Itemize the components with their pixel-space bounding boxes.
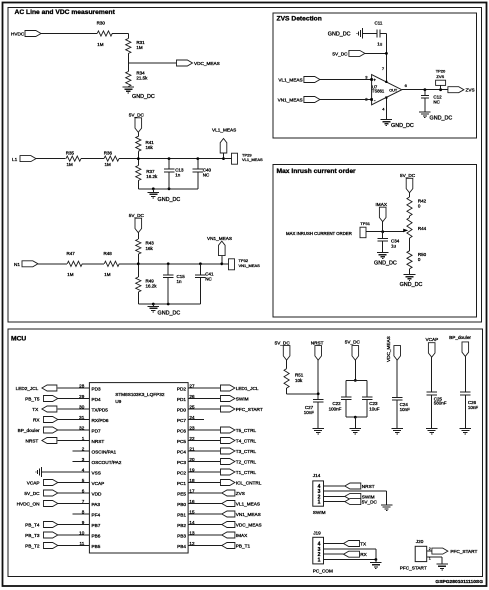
- svg-text:100nF: 100nF: [329, 406, 342, 411]
- svg-text:LED2_JCL: LED2_JCL: [16, 386, 39, 391]
- svg-text:2: 2: [82, 446, 85, 451]
- svg-text:PB3: PB3: [177, 533, 186, 538]
- svg-text:PFC_START: PFC_START: [450, 549, 477, 554]
- svg-text:PC5: PC5: [177, 439, 187, 444]
- svg-text:PD3: PD3: [92, 386, 102, 391]
- svg-text:GSPG2801011110SG: GSPG2801011110SG: [435, 579, 483, 585]
- svg-text:1M: 1M: [104, 272, 111, 277]
- svg-text:580nF: 580nF: [434, 401, 447, 406]
- svg-text:RX: RX: [33, 417, 40, 422]
- svg-text:1M: 1M: [97, 42, 104, 47]
- svg-text:5V_DC: 5V_DC: [332, 52, 348, 57]
- svg-text:5: 5: [82, 478, 85, 483]
- svg-text:10uF: 10uF: [369, 406, 380, 411]
- svg-text:R30: R30: [97, 21, 106, 26]
- svg-text:1M: 1M: [136, 45, 143, 50]
- svg-text:PFC_START: PFC_START: [236, 407, 263, 412]
- svg-text:5V_DC: 5V_DC: [400, 173, 416, 178]
- svg-text:TP20: TP20: [436, 68, 446, 73]
- svg-text:J20: J20: [416, 539, 424, 544]
- svg-text:PC_COM: PC_COM: [313, 569, 333, 574]
- svg-text:L1: L1: [12, 157, 18, 162]
- svg-text:10k: 10k: [295, 378, 303, 383]
- svg-text:16k: 16k: [146, 145, 154, 150]
- svg-text:VN1_MEAS: VN1_MEAS: [278, 97, 303, 102]
- svg-text:29: 29: [79, 394, 85, 399]
- svg-text:VCAP: VCAP: [92, 481, 105, 486]
- svg-text:ZVS: ZVS: [436, 74, 444, 79]
- svg-text:PD1: PD1: [177, 397, 187, 402]
- svg-text:NRST: NRST: [26, 438, 39, 443]
- svg-text:VCAP: VCAP: [426, 337, 439, 342]
- svg-text:NC: NC: [433, 100, 440, 105]
- svg-text:PC1: PC1: [177, 481, 187, 486]
- svg-text:OSCIN/PA1: OSCIN/PA1: [92, 449, 117, 454]
- svg-text:PD7: PD7: [92, 428, 102, 433]
- svg-text:SWIM: SWIM: [313, 510, 326, 515]
- svg-text:PB_T5: PB_T5: [25, 396, 40, 401]
- svg-text:MAX INRUSH CURRENT ORDER: MAX INRUSH CURRENT ORDER: [286, 231, 352, 236]
- svg-text:VDC_MEAS: VDC_MEAS: [236, 522, 262, 527]
- svg-text:16.2k: 16.2k: [146, 174, 158, 179]
- svg-text:AC Line and VDC measurement: AC Line and VDC measurement: [15, 9, 116, 16]
- svg-text:ZVS: ZVS: [466, 87, 475, 92]
- svg-text:RX/PD6: RX/PD6: [92, 418, 109, 423]
- svg-text:VN1_MEAS: VN1_MEAS: [207, 236, 232, 241]
- svg-text:R51: R51: [295, 372, 304, 377]
- svg-text:VSS: VSS: [92, 470, 101, 475]
- svg-text:1: 1: [82, 436, 85, 441]
- svg-text:GND_DC: GND_DC: [430, 116, 453, 122]
- svg-text:TX: TX: [360, 542, 367, 547]
- svg-text:5V_DC: 5V_DC: [275, 340, 291, 345]
- svg-text:10: 10: [79, 530, 85, 535]
- svg-text:PC3: PC3: [177, 460, 187, 465]
- svg-text:VN1_MEAS: VN1_MEAS: [236, 512, 261, 517]
- svg-text:28: 28: [79, 383, 85, 388]
- svg-text:VL1_MEAS: VL1_MEAS: [278, 77, 302, 82]
- svg-text:1n: 1n: [175, 173, 181, 178]
- svg-text:PB4: PB4: [177, 544, 186, 549]
- svg-text:30: 30: [79, 404, 85, 409]
- svg-text:PC7: PC7: [177, 418, 187, 423]
- svg-text:PC6: PC6: [177, 428, 187, 433]
- svg-text:PB_T3: PB_T3: [25, 533, 40, 538]
- svg-text:4: 4: [82, 467, 85, 472]
- svg-text:VL1_MEAS: VL1_MEAS: [242, 157, 263, 162]
- svg-text:HVDC: HVDC: [11, 32, 25, 37]
- svg-text:NRST: NRST: [311, 340, 324, 345]
- svg-text:PB0: PB0: [177, 502, 186, 507]
- svg-text:9: 9: [82, 520, 85, 525]
- svg-text:PA3: PA3: [92, 502, 101, 507]
- svg-text:T4_CTRL: T4_CTRL: [236, 438, 257, 443]
- svg-text:5V_DC: 5V_DC: [345, 340, 361, 345]
- svg-text:VDD: VDD: [92, 491, 103, 496]
- svg-text:PD2: PD2: [177, 386, 187, 391]
- svg-text:PE5: PE5: [177, 491, 186, 496]
- svg-text:R36: R36: [104, 151, 113, 156]
- svg-text:NRST: NRST: [92, 439, 105, 444]
- svg-text:Max Inrush current order: Max Inrush current order: [277, 168, 357, 175]
- svg-text:PB5: PB5: [92, 544, 101, 549]
- svg-text:GND_DC: GND_DC: [391, 123, 414, 129]
- svg-text:IMAX: IMAX: [376, 202, 388, 207]
- svg-text:11: 11: [80, 541, 85, 546]
- svg-text:N1: N1: [14, 262, 20, 267]
- svg-text:PB_T4: PB_T4: [25, 522, 40, 527]
- svg-text:1: 1: [318, 500, 321, 506]
- svg-text:STM8S103K3_LQFP32: STM8S103K3_LQFP32: [115, 392, 165, 397]
- svg-text:VDC_MEAS: VDC_MEAS: [194, 61, 220, 66]
- svg-text:OUT: OUT: [389, 88, 398, 92]
- svg-text:R47: R47: [67, 251, 76, 256]
- svg-text:GND_DC: GND_DC: [158, 310, 181, 316]
- svg-text:TS861: TS861: [372, 89, 385, 94]
- svg-text:SWIM: SWIM: [236, 396, 249, 401]
- svg-text:TP31: TP31: [360, 221, 370, 226]
- svg-text:3: 3: [82, 457, 85, 462]
- svg-text:GND_DC: GND_DC: [132, 94, 155, 100]
- svg-text:HVDC_ON: HVDC_ON: [17, 501, 40, 506]
- svg-text:10nF: 10nF: [468, 405, 479, 410]
- svg-text:GND_DC: GND_DC: [158, 197, 181, 203]
- svg-text:GND_DC: GND_DC: [400, 282, 423, 288]
- svg-text:T2_CTRL: T2_CTRL: [236, 459, 257, 464]
- svg-text:BP_douler: BP_douler: [18, 428, 40, 433]
- svg-text:GND_DC: GND_DC: [328, 32, 351, 38]
- svg-text:PB1: PB1: [177, 512, 186, 517]
- svg-text:10nF: 10nF: [400, 407, 411, 412]
- svg-text:VDC_MEAS: VDC_MEAS: [386, 336, 391, 362]
- svg-text:T1_CTRL: T1_CTRL: [236, 470, 257, 475]
- svg-text:ZVS Detection: ZVS Detection: [277, 15, 322, 22]
- svg-text:R44: R44: [418, 226, 427, 231]
- svg-text:RX: RX: [360, 552, 367, 557]
- svg-text:BP_douler: BP_douler: [449, 335, 471, 340]
- svg-text:5V_DC: 5V_DC: [362, 500, 378, 505]
- svg-text:T3_CTRL: T3_CTRL: [236, 449, 257, 454]
- svg-text:OSCOUT/PA2: OSCOUT/PA2: [92, 460, 122, 465]
- svg-text:1M: 1M: [67, 272, 74, 277]
- svg-text:VCAP: VCAP: [27, 480, 40, 485]
- svg-text:VL1_MEAS: VL1_MEAS: [212, 128, 236, 133]
- svg-text:TX: TX: [32, 407, 39, 412]
- svg-text:PB6: PB6: [92, 533, 101, 538]
- svg-text:TX/PD5: TX/PD5: [92, 407, 109, 412]
- svg-text:6: 6: [82, 488, 85, 493]
- svg-text:PFC_START: PFC_START: [400, 565, 427, 570]
- svg-text:MCU: MCU: [11, 336, 26, 343]
- svg-text:NC: NC: [203, 173, 210, 178]
- svg-text:PD4: PD4: [92, 397, 102, 402]
- svg-text:1M: 1M: [67, 162, 74, 167]
- svg-text:1: 1: [318, 558, 321, 564]
- svg-text:8: 8: [82, 509, 85, 514]
- svg-text:16.2k: 16.2k: [146, 284, 158, 289]
- svg-text:PB_T2: PB_T2: [25, 543, 40, 548]
- svg-text:5V_DC: 5V_DC: [129, 213, 145, 218]
- svg-text:NC: NC: [205, 276, 212, 281]
- svg-text:VN1_MEAS: VN1_MEAS: [239, 263, 261, 268]
- svg-text:VL1_MEAS: VL1_MEAS: [236, 501, 260, 506]
- svg-text:C11: C11: [375, 20, 383, 25]
- svg-text:IMAX: IMAX: [236, 533, 248, 538]
- svg-text:1u: 1u: [391, 244, 397, 249]
- svg-text:PD0: PD0: [177, 407, 187, 412]
- svg-text:PC2: PC2: [177, 470, 187, 475]
- svg-text:10nF: 10nF: [304, 410, 315, 415]
- svg-text:PB_T1: PB_T1: [236, 543, 251, 548]
- svg-text:1u: 1u: [377, 42, 383, 47]
- svg-text:1M: 1M: [105, 162, 112, 167]
- svg-text:T5_CTRL: T5_CTRL: [236, 428, 257, 433]
- svg-text:2: 2: [429, 547, 431, 551]
- svg-text:LED1_JCL: LED1_JCL: [236, 386, 259, 391]
- svg-text:PB2: PB2: [177, 523, 186, 528]
- svg-text:J19: J19: [313, 531, 321, 536]
- svg-text:ICL_CNTRL: ICL_CNTRL: [236, 480, 262, 485]
- svg-text:ZVS: ZVS: [236, 491, 245, 496]
- svg-text:32: 32: [79, 425, 85, 430]
- svg-text:U9: U9: [115, 399, 121, 405]
- svg-text:R35: R35: [66, 151, 75, 156]
- svg-text:16k: 16k: [146, 246, 154, 251]
- svg-text:C23: C23: [369, 401, 378, 406]
- svg-text:C22: C22: [332, 401, 341, 406]
- svg-text:PC4: PC4: [177, 449, 187, 454]
- svg-text:GND_DC: GND_DC: [374, 261, 397, 267]
- svg-text:21.5k: 21.5k: [136, 76, 148, 81]
- svg-text:R48: R48: [104, 251, 113, 256]
- svg-text:+: +: [373, 77, 376, 82]
- svg-text:7: 7: [82, 499, 85, 504]
- svg-text:5V_DC: 5V_DC: [129, 112, 145, 117]
- svg-text:31: 31: [79, 415, 85, 420]
- svg-text:-: -: [374, 98, 376, 104]
- svg-text:NRST: NRST: [362, 484, 375, 489]
- svg-text:PF4: PF4: [92, 512, 101, 517]
- svg-text:1n: 1n: [177, 279, 183, 284]
- svg-text:J14: J14: [313, 473, 321, 478]
- svg-text:PB7: PB7: [92, 523, 101, 528]
- svg-text:5V_DC: 5V_DC: [24, 491, 40, 496]
